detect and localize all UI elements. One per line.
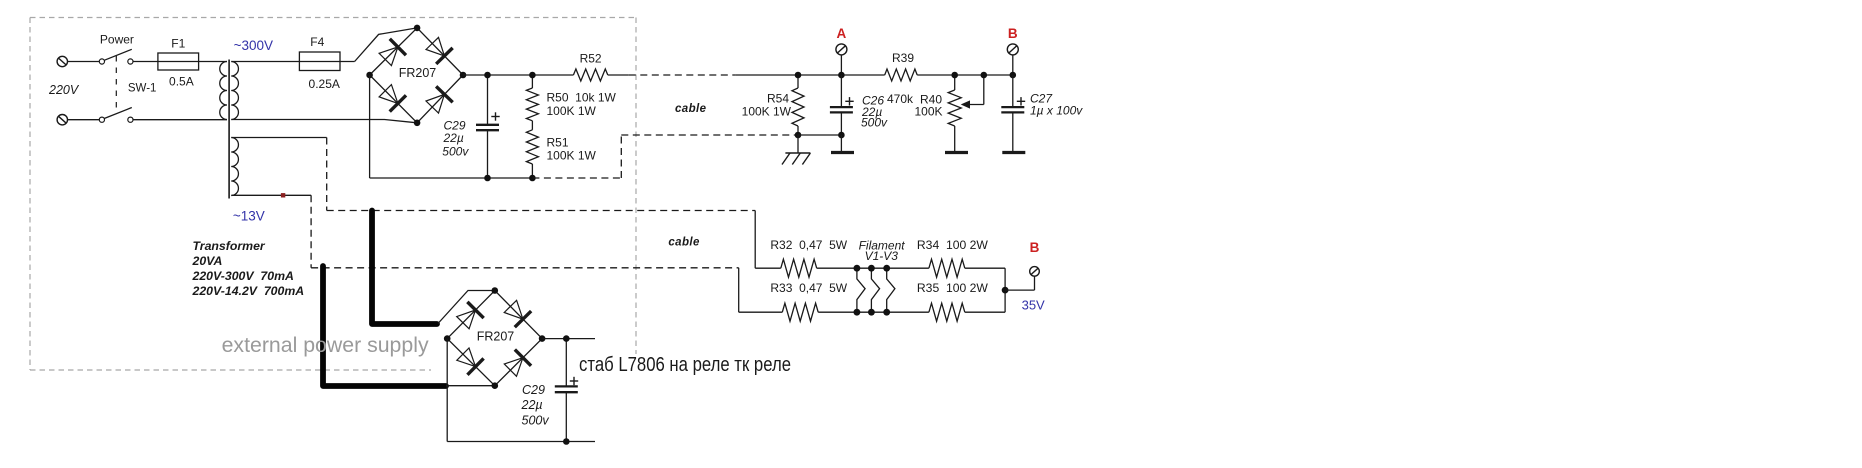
switch SW-1 pole 1 blade	[104, 49, 132, 60]
svg-text:F1: F1	[171, 37, 185, 51]
wire thick2 to bridge2 bottom	[446, 385, 495, 387]
svg-text:B: B	[1008, 26, 1018, 41]
junction dot C29 bottom	[484, 175, 491, 182]
capacitor C29 (HV)	[487, 75, 489, 125]
junction dot R54 bottom	[795, 132, 802, 139]
svg-text:220V-14.2V 700mA: 220V-14.2V 700mA	[192, 284, 305, 298]
switch SW-1 pole 2 contacts	[99, 117, 104, 122]
filament V1	[857, 268, 865, 312]
diode D5 (bridge2 top-left)	[457, 310, 476, 329]
svg-text:22µ: 22µ	[521, 398, 543, 412]
wire secondary to F4	[231, 61, 299, 63]
svg-text:V1-V3: V1-V3	[865, 249, 899, 263]
svg-text:R51: R51	[547, 135, 569, 149]
svg-text:35V: 35V	[1022, 298, 1045, 313]
wire R34 to corner	[965, 267, 1005, 269]
resistor R35	[929, 303, 965, 321]
cable wire filament A (dashed)	[326, 138, 328, 211]
switch SW-1 gang link (dashed)	[115, 56, 117, 110]
wire R32 to filaments	[817, 267, 929, 269]
switch SW-1 pole 2 blade	[104, 108, 132, 119]
wire switch to transformer primary (top)	[133, 61, 227, 63]
wire terminal to switch (top)	[68, 61, 100, 63]
svg-text:стаб L7806 на реле тк реле: стаб L7806 на реле тк реле	[579, 354, 791, 376]
bridge 1 node dots	[414, 25, 421, 32]
svg-text:SW-1: SW-1	[128, 82, 157, 94]
wire to terminal B (35V)	[1005, 289, 1034, 291]
junction dot node B	[1010, 72, 1017, 79]
wire 13V secondary top	[231, 137, 326, 139]
cable wire filament B (dashed)	[310, 195, 312, 267]
svg-text:~13V: ~13V	[233, 209, 265, 224]
svg-text:R50 10k 1W: R50 10k 1W	[547, 90, 617, 104]
plus sign C26	[845, 100, 853, 102]
svg-text:470k: 470k	[887, 92, 914, 106]
wire cableA down to R32 rail	[754, 211, 756, 269]
resistor R33	[782, 303, 818, 321]
svg-text:Transformer: Transformer	[193, 239, 266, 253]
R40 wiper arrow	[964, 104, 984, 106]
wire switch to transformer primary (bottom)	[133, 119, 227, 121]
svg-text:500v: 500v	[522, 414, 550, 428]
junction dot node A	[838, 72, 845, 79]
bridge 2 diamond wires	[447, 291, 542, 339]
svg-text:A: A	[837, 26, 847, 41]
svg-text:C29: C29	[522, 383, 545, 397]
transformer T1 secondary winding ~13V	[231, 138, 238, 196]
svg-text:220V-300V 70mA: 220V-300V 70mA	[192, 269, 294, 283]
terminal 220V line (top)	[57, 56, 67, 66]
diode D2 (bridge1 top-right)	[426, 37, 444, 56]
svg-text:~300V: ~300V	[234, 38, 273, 53]
thick jumper wire 2 (to bridge 2 AC bottom)	[323, 266, 446, 386]
capacitor C27	[1012, 75, 1014, 107]
plus sign C27	[1017, 100, 1025, 102]
enclosure dashed border (external power supply box)	[30, 17, 636, 19]
ground below R40	[945, 151, 968, 154]
switch SW-1 pole 1 contacts	[99, 59, 104, 64]
svg-text:100K 1W: 100K 1W	[742, 105, 792, 119]
wire R39 to node B	[917, 74, 1013, 76]
junction dot C26 bottom	[838, 132, 845, 139]
R33 rail lead	[739, 311, 783, 313]
wire R33 to filaments	[818, 311, 929, 313]
svg-text:B: B	[1030, 240, 1040, 255]
terminal A	[836, 44, 847, 55]
wire terminal to switch (bottom)	[68, 119, 100, 121]
svg-text:R34 100 2W: R34 100 2W	[917, 238, 989, 252]
junction dot R51 bottom	[529, 175, 536, 182]
ground below C27	[1002, 151, 1025, 154]
capacitor C26	[840, 75, 842, 107]
wire bridge1 plus rail	[463, 74, 573, 76]
bridge2 minus rail	[446, 339, 448, 442]
transformer T1 core	[228, 60, 230, 199]
wire R54 bottom to C26 bottom	[798, 134, 841, 136]
junction dot R50 top	[529, 72, 536, 79]
resistor R50	[531, 75, 533, 88]
svg-text:100K 1W: 100K 1W	[547, 149, 597, 163]
svg-text:external power supply: external power supply	[222, 333, 429, 357]
resistor R51	[526, 130, 538, 164]
wire R35 to corner	[965, 311, 1005, 313]
svg-text:R33 0,47 5W: R33 0,47 5W	[770, 281, 847, 295]
svg-text:500v: 500v	[861, 115, 888, 129]
bridge 2 node dots	[492, 287, 499, 294]
svg-text:cable: cable	[675, 103, 707, 115]
svg-text:1µ x 100v: 1µ x 100v	[1030, 104, 1083, 118]
diode D6 (bridge2 top-right)	[504, 300, 523, 319]
svg-text:R32 0,47 5W: R32 0,47 5W	[770, 238, 847, 252]
transformer T1 secondary winding ~300V	[231, 62, 238, 120]
junction dot C29LV top	[563, 335, 570, 342]
filament V2	[871, 268, 879, 312]
svg-text:100K: 100K	[914, 105, 942, 119]
wire R52 to cable	[608, 74, 629, 76]
fuse F1	[158, 53, 199, 70]
junction dot C29LV bottom	[563, 438, 570, 445]
wire cableB down to R33 rail	[738, 268, 740, 312]
svg-text:22µ: 22µ	[443, 131, 464, 145]
diode D3 (bridge1 bottom-left)	[379, 85, 398, 104]
svg-text:220V: 220V	[48, 83, 80, 97]
svg-text:cable: cable	[668, 236, 700, 248]
fuse F4	[299, 61, 354, 63]
terminal 220V line (bottom)	[57, 115, 67, 125]
wire bridge1 minus rail	[369, 75, 371, 178]
thick jumper wire 1 (to bridge 2 AC top)	[372, 211, 437, 325]
svg-text:FR207: FR207	[477, 330, 515, 344]
wire thick1 to bridge2 top	[438, 291, 495, 324]
svg-text:FR207: FR207	[399, 66, 437, 80]
resistor R39	[885, 69, 918, 81]
svg-text:20VA: 20VA	[192, 254, 223, 268]
svg-text:F4: F4	[310, 35, 324, 49]
svg-text:Power: Power	[100, 32, 134, 46]
bridge2 plus rail	[542, 338, 595, 340]
resistor R52	[573, 69, 607, 81]
junction dot C29 top	[484, 72, 491, 79]
cable return wire (dashed)	[532, 177, 621, 179]
terminal B (35V)	[1030, 267, 1040, 277]
junction dot R54 top	[795, 72, 802, 79]
cable wire HV (dashed)	[629, 74, 736, 76]
diode D7 (bridge2 bottom-left)	[457, 348, 476, 367]
transformer T1 primary winding	[220, 62, 227, 120]
wire F4 to bridge top	[355, 28, 418, 62]
svg-text:R39: R39	[892, 51, 914, 65]
ground below C26	[840, 135, 842, 153]
diode D4 (bridge1 bottom-right)	[426, 94, 444, 113]
terminal B	[1007, 44, 1018, 55]
bridge 1 diamond wires	[370, 28, 463, 75]
svg-text:R54: R54	[767, 92, 789, 106]
resistor R34	[929, 259, 965, 277]
ground (earth) below R54	[797, 135, 799, 153]
red junction mark on 13V wire	[281, 193, 285, 197]
R32 rail lead	[755, 267, 781, 269]
resistor R40 (rheostat)	[954, 75, 956, 90]
svg-text:R35 100 2W: R35 100 2W	[917, 281, 989, 295]
diode D8 (bridge2 bottom-right)	[504, 358, 523, 377]
wire secondary bottom to bridge	[231, 120, 417, 123]
resistor R54	[797, 75, 799, 88]
svg-text:0.5A: 0.5A	[169, 74, 194, 88]
wire 13V secondary bottom	[231, 194, 311, 196]
filament V3	[887, 268, 895, 312]
junction dot node B filament	[1002, 287, 1009, 294]
plus sign C29	[491, 116, 499, 118]
junction dot R40 wiper	[981, 72, 988, 79]
resistor R32	[781, 259, 817, 277]
svg-text:100K 1W: 100K 1W	[547, 104, 597, 118]
plus sign C29 LV	[570, 380, 578, 382]
svg-text:0.25A: 0.25A	[309, 77, 340, 91]
svg-text:R52: R52	[580, 51, 602, 65]
capacitor C29 (LV)	[565, 339, 567, 387]
svg-text:500v: 500v	[442, 145, 469, 159]
wire cable to node A rail	[735, 74, 884, 76]
junction dot R40 top	[951, 72, 958, 79]
diode D1 (bridge1 top-left)	[379, 47, 398, 66]
